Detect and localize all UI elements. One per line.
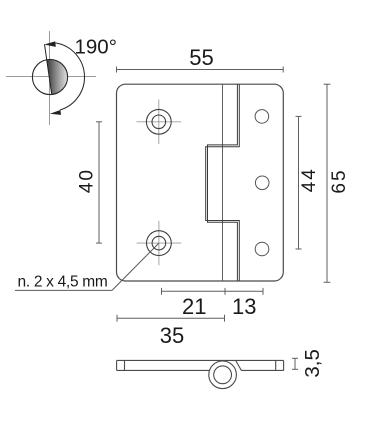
svg-text:35: 35	[160, 323, 184, 348]
dimension 21 and 13 line	[162, 288, 264, 295]
dimension 65 line	[324, 84, 331, 282]
screw hole bottom-left inner	[152, 236, 166, 250]
knuckle fold line outer	[206, 84, 240, 280]
callout leader line	[112, 243, 159, 290]
screw hole crosshair bottom-left	[137, 221, 182, 265]
knuckle fold line inner	[208, 84, 238, 280]
screw hole top-left inner	[152, 115, 166, 129]
angle icon arc arrowhead bottom	[50, 110, 61, 115]
dimension 40 line	[96, 122, 102, 243]
svg-text:21: 21	[182, 294, 206, 319]
screw hole top-left outer	[146, 109, 171, 134]
side view pin hole	[214, 366, 232, 384]
screw hole crosshair top-left	[137, 100, 182, 144]
dimension 55 line	[117, 67, 284, 73]
angle icon 190-degree arc	[55, 43, 84, 110]
svg-text:40: 40	[77, 168, 98, 193]
right hole bottom	[255, 242, 269, 256]
hinge plate outline	[117, 84, 284, 281]
hinge pin line	[222, 84, 224, 280]
svg-text:44: 44	[299, 167, 320, 192]
right hole middle	[255, 176, 269, 190]
angle icon arc arrowhead top	[44, 41, 56, 47]
angle icon leaf line	[45, 44, 52, 95]
side view leaf bar	[117, 360, 284, 370]
svg-text:55: 55	[189, 45, 213, 70]
angle icon vertical crosshair	[49, 31, 51, 125]
svg-text:190°: 190°	[75, 36, 117, 59]
angle icon circle	[32, 59, 67, 94]
svg-text:n. 2 x 4,5 mm: n. 2 x 4,5 mm	[18, 274, 108, 291]
svg-text:3,5: 3,5	[301, 349, 324, 378]
svg-text:13: 13	[232, 294, 256, 319]
screw hole bottom-left outer	[147, 231, 172, 256]
svg-text:65: 65	[329, 168, 350, 193]
dimension 3,5 line	[292, 358, 298, 369]
right hole top	[255, 110, 269, 124]
angle icon horizontal crosshair	[6, 76, 96, 78]
side view knuckle outer circle	[209, 361, 237, 389]
dimension 44 line	[296, 116, 302, 249]
callout underline	[15, 289, 112, 291]
angle icon half-disc gradient fill	[47, 59, 68, 94]
dimension 35 line	[117, 315, 225, 322]
